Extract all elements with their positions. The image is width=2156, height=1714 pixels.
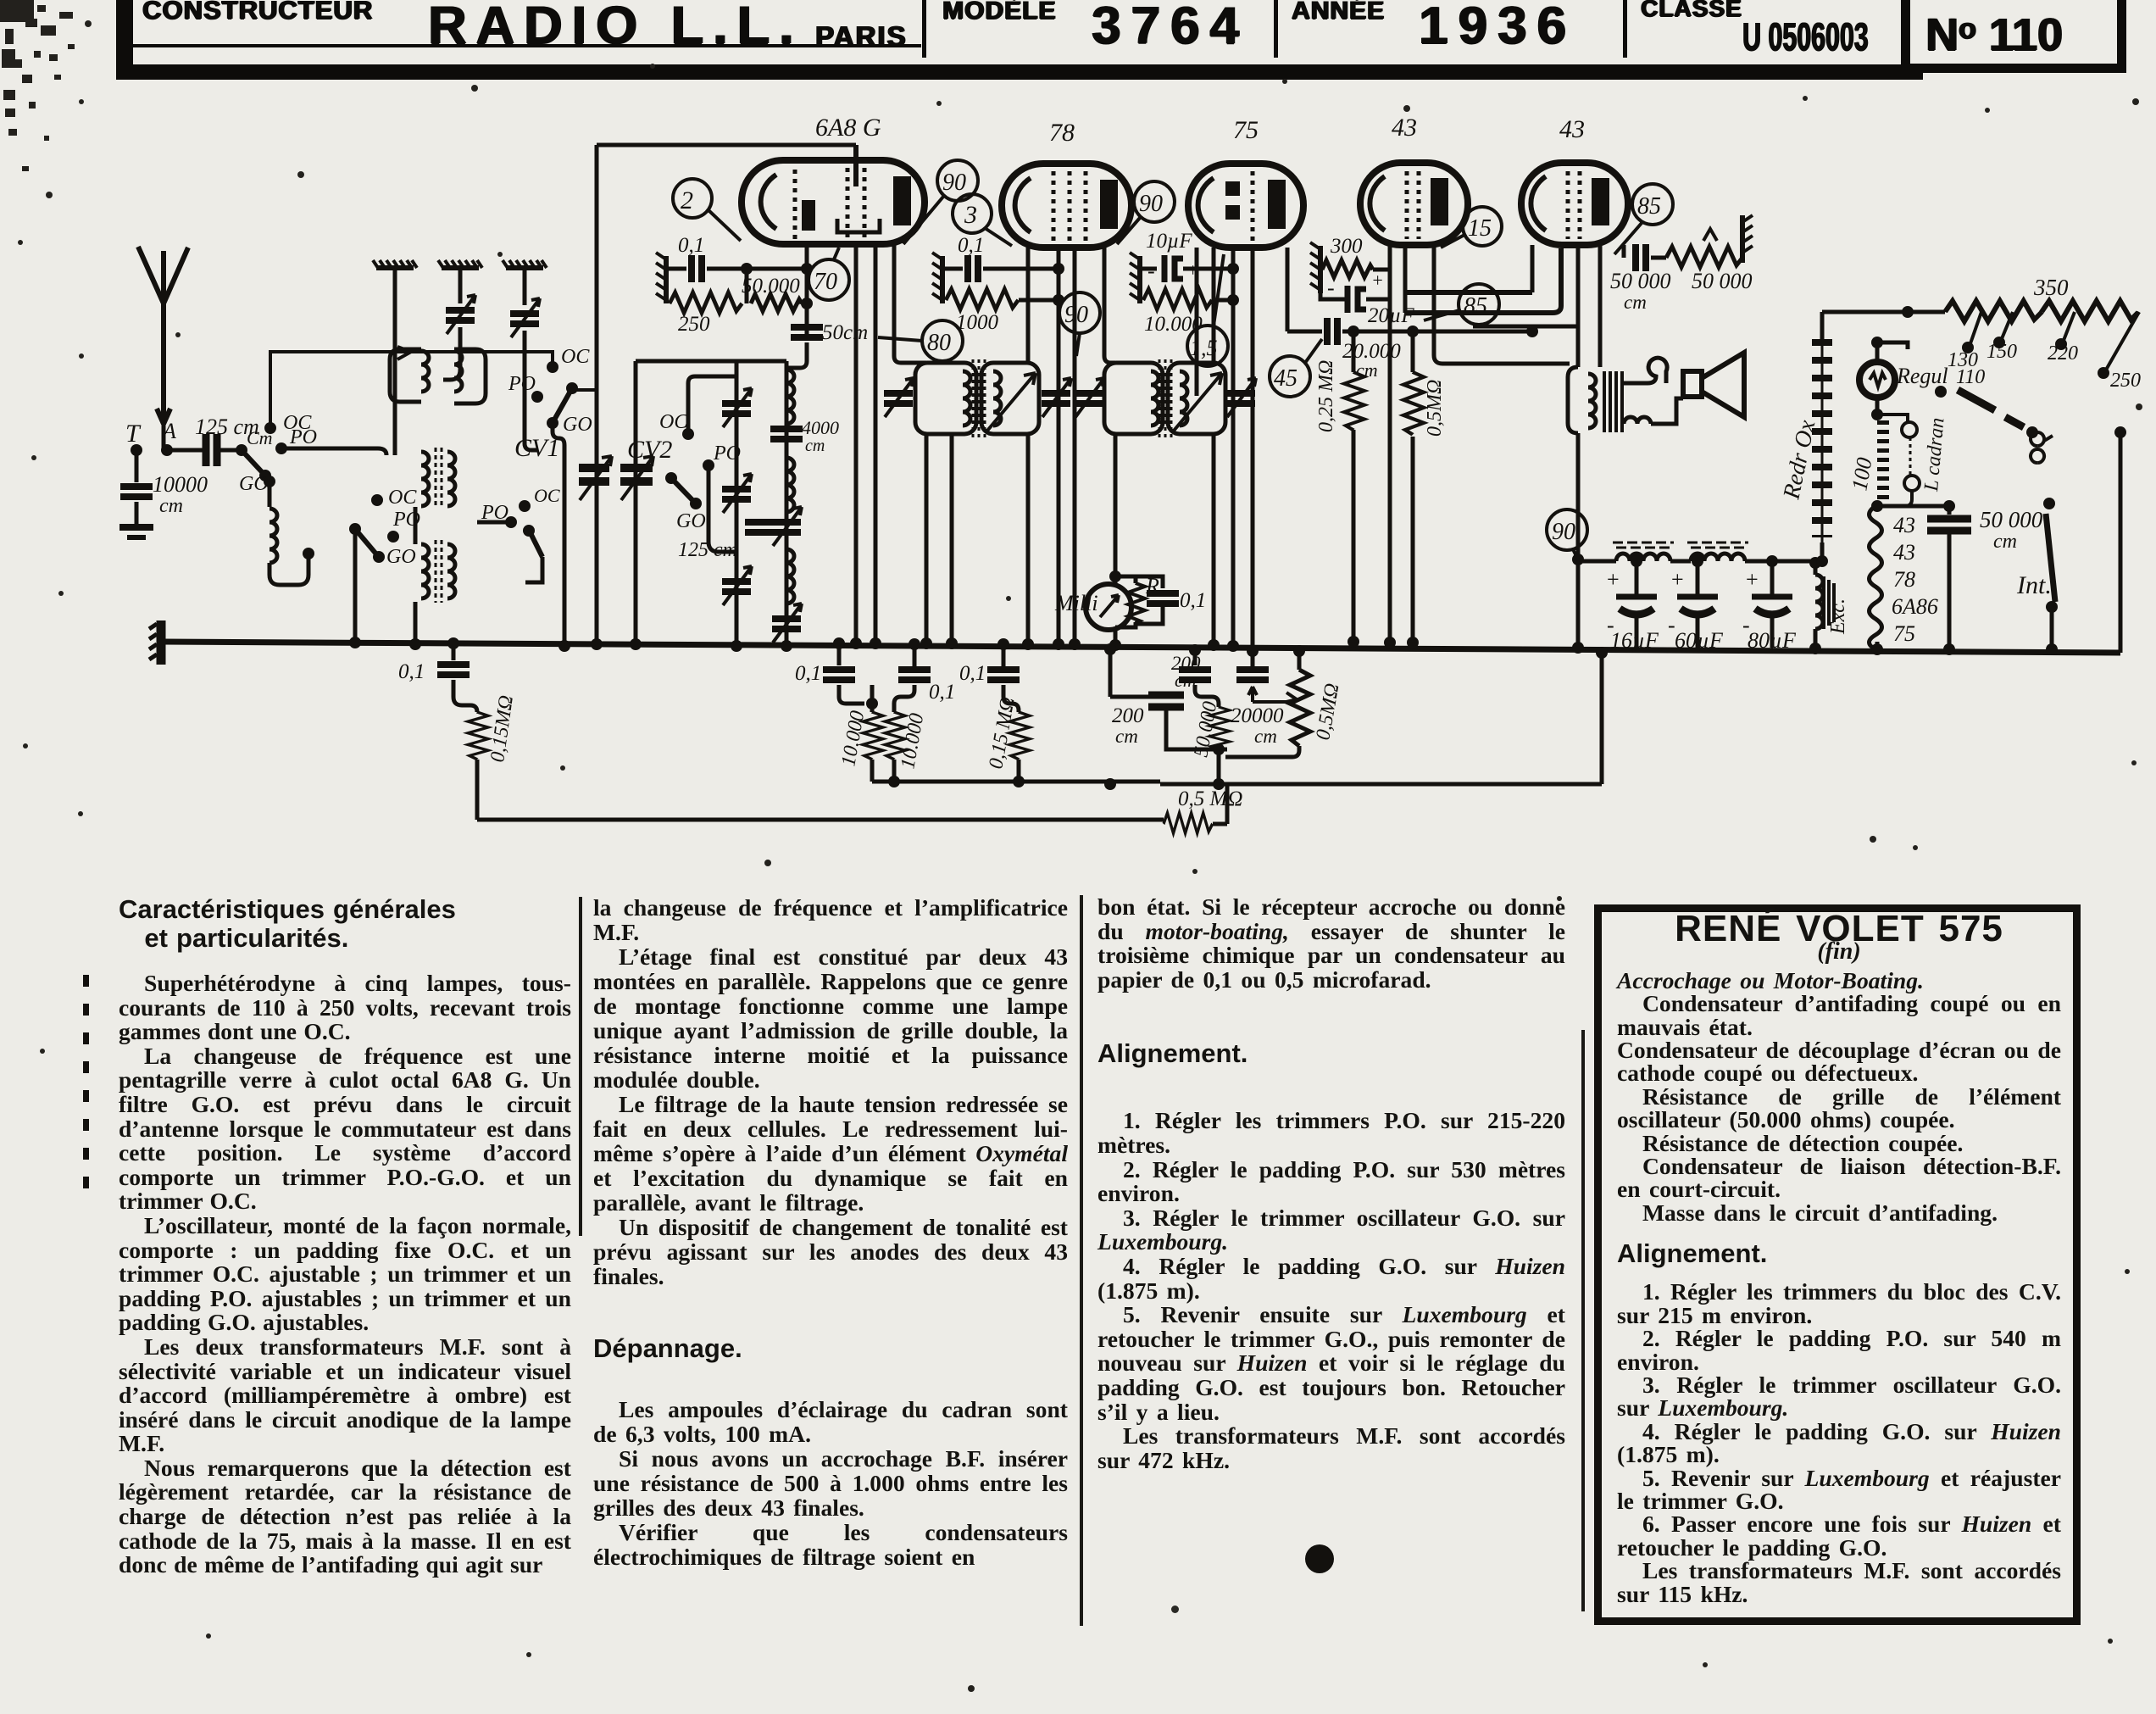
svg-text:+: + xyxy=(1671,567,1684,592)
U4 anode wire xyxy=(1434,225,1570,364)
contact OC xyxy=(264,422,276,434)
column 4 boxed xyxy=(1594,904,2081,1625)
circled 90 d xyxy=(1547,509,1587,559)
svg-text:0,5MΩ: 0,5MΩ xyxy=(1312,682,1343,742)
circled 45 xyxy=(1270,339,1322,397)
shield bar 2 xyxy=(438,260,482,268)
B+ top rail xyxy=(1822,310,1945,314)
svg-text:0,1: 0,1 xyxy=(958,234,984,257)
MF1 trimmer left xyxy=(884,378,914,417)
svg-text:0,1: 0,1 xyxy=(678,234,704,257)
selector taps xyxy=(1970,312,1981,346)
svg-text:0,5MΩ: 0,5MΩ xyxy=(1424,380,1446,437)
U4 cathode arc xyxy=(1370,176,1385,231)
svg-text:+: + xyxy=(1607,567,1620,592)
circled 90 b xyxy=(1117,181,1175,244)
svg-text:50 000: 50 000 xyxy=(1692,269,1753,293)
field coil Exc. xyxy=(1809,557,1821,569)
svg-text:90: 90 xyxy=(942,170,966,196)
junction xyxy=(741,263,753,275)
svg-text:10.000: 10.000 xyxy=(1144,313,1203,336)
contact PO xyxy=(387,531,399,543)
svg-text:+: + xyxy=(1746,567,1759,592)
osc coil L5 xyxy=(786,549,794,604)
wire anode to coupling cap xyxy=(1287,330,1322,334)
U1 anode xyxy=(893,176,911,225)
svg-text:90: 90 xyxy=(1139,191,1163,217)
svg-text:0,5 MΩ: 0,5 MΩ xyxy=(1178,787,1242,810)
ground hatch at pot xyxy=(1742,215,1753,263)
svg-text:10.000: 10.000 xyxy=(897,712,928,771)
U2 pin wires xyxy=(1057,248,1061,643)
capacitor 125 cm xyxy=(206,434,217,466)
padding capacitor 4000 cm xyxy=(770,429,803,439)
shield bar 3 xyxy=(503,260,547,268)
electrolytic C 80µF xyxy=(1766,555,1778,567)
svg-text:OC: OC xyxy=(659,411,688,433)
speaker xyxy=(1683,371,1702,397)
osc coil column wire xyxy=(785,361,789,646)
grid pin wire U1 xyxy=(805,244,809,341)
svg-text:1,5: 1,5 xyxy=(1190,336,1218,360)
filter choke 1 xyxy=(1599,559,1616,564)
variable capacitor CV2 xyxy=(620,468,653,481)
U4 pin wires xyxy=(1388,245,1392,643)
T2 secondary xyxy=(447,544,455,598)
svg-text:78: 78 xyxy=(1893,567,1915,592)
U3 anode to AF wire xyxy=(1286,248,1290,331)
arm xyxy=(530,531,542,557)
cap 0,1 c / resistor 0,15MΩ b xyxy=(997,638,1009,650)
svg-text:78: 78 xyxy=(1049,119,1075,147)
MF1 trimmer right xyxy=(1042,378,1071,417)
wire cap to grid pin xyxy=(707,267,807,271)
osc coil L4 xyxy=(786,458,794,512)
svg-text:OC: OC xyxy=(534,485,560,506)
resistor 10.000 a xyxy=(866,698,878,710)
electrolytic 10µF xyxy=(1164,255,1183,282)
RF transformer T2 primary xyxy=(421,544,429,598)
switch arm Cm xyxy=(242,450,264,475)
svg-text:80µF: 80µF xyxy=(1748,628,1797,653)
padder pair PO xyxy=(745,522,777,532)
svg-text:50.000: 50.000 xyxy=(742,275,800,298)
svg-text:GO: GO xyxy=(676,510,706,532)
resistor 0,25 MΩ xyxy=(1347,326,1359,337)
output transformer primary xyxy=(1568,367,1578,433)
svg-text:cm: cm xyxy=(1624,292,1647,313)
MF2 arrow xyxy=(1174,373,1222,431)
cap 200 cm b xyxy=(1189,644,1201,656)
svg-text:90: 90 xyxy=(1552,519,1575,545)
MF1 secondary coil xyxy=(993,371,1001,426)
meter loop xyxy=(1115,576,1136,645)
svg-text:250: 250 xyxy=(2110,370,2141,392)
svg-text:+: + xyxy=(1371,270,1384,291)
arm to GO xyxy=(572,388,598,392)
MF2 left bottom wire xyxy=(1114,434,1118,576)
svg-text:-: - xyxy=(1147,259,1155,283)
svg-text:cm: cm xyxy=(805,437,825,455)
circled 90 c xyxy=(1059,292,1100,356)
grid feed wire to 43s xyxy=(1531,330,1535,334)
margin dashes xyxy=(83,975,89,1204)
svg-text:90: 90 xyxy=(1064,302,1088,328)
svg-text:0,1: 0,1 xyxy=(1180,589,1206,612)
svg-text:300: 300 xyxy=(1330,235,1363,258)
svg-text:OC: OC xyxy=(561,346,590,368)
milliammeter M xyxy=(1086,584,1131,630)
link junction to resistors xyxy=(745,269,749,303)
B+ rail to rectifier xyxy=(1578,559,1599,564)
switch cluster 2: contact OC xyxy=(371,494,383,506)
node T xyxy=(131,444,142,456)
resistor 0,5 MΩ xyxy=(1407,326,1419,337)
resistor R shunt xyxy=(1128,583,1145,623)
capacitor 20.000 cm xyxy=(1327,318,1337,345)
svg-text:85: 85 xyxy=(1464,293,1487,320)
node A xyxy=(161,444,173,456)
column rule 1 xyxy=(579,897,582,1236)
wire hatch to cap xyxy=(666,267,686,271)
svg-text:4000: 4000 xyxy=(802,417,839,438)
MF1 primary coil xyxy=(963,371,970,426)
capacitor 0,1 xyxy=(968,255,978,282)
arm GO xyxy=(665,472,677,484)
svg-text:PO: PO xyxy=(713,442,741,465)
U1 anode wire to IF1 xyxy=(894,244,926,363)
svg-text:0,1: 0,1 xyxy=(929,681,955,704)
return line xyxy=(477,818,1164,822)
wire PO line to T1 xyxy=(281,448,386,455)
column 1 xyxy=(119,895,571,1578)
circled 80 xyxy=(878,320,963,361)
parallel grid tie wires xyxy=(1405,248,1561,313)
switch cluster 5: contact OC xyxy=(519,500,531,512)
column 3 xyxy=(1097,895,1565,1472)
right edge wire xyxy=(2119,432,2123,653)
MF1 core xyxy=(973,359,985,437)
svg-text:50cm: 50cm xyxy=(822,321,868,344)
ground hatch xyxy=(656,253,666,303)
svg-text:OC: OC xyxy=(388,487,417,509)
resistor 50.000 xyxy=(751,294,802,311)
U3 diode plate 1 xyxy=(1225,181,1240,196)
svg-text:2: 2 xyxy=(681,186,693,214)
U2 anode xyxy=(1100,180,1118,229)
MF1 arrow xyxy=(987,373,1036,431)
U2 grids dashed xyxy=(1052,171,1056,242)
svg-text:10000: 10000 xyxy=(153,472,208,497)
svg-text:220: 220 xyxy=(2048,342,2078,365)
wire antenna to A xyxy=(162,424,166,450)
U5 anode xyxy=(1592,178,1609,225)
capacitor 50cm xyxy=(791,327,823,337)
U3 diode plate 2 xyxy=(1225,205,1240,220)
contact GO xyxy=(264,476,275,487)
U5 grid dashed xyxy=(1566,171,1570,239)
resistor 0,5MΩ vert b xyxy=(1290,670,1310,746)
MF2 right bottom wire xyxy=(1212,434,1216,645)
resistor 10.000 xyxy=(1138,291,1142,300)
feed to screens (left along top) xyxy=(1820,310,1825,314)
svg-text:43: 43 xyxy=(1392,114,1417,142)
contact PO xyxy=(703,459,714,471)
circled 15 xyxy=(1441,207,1502,248)
transformer to B+ wire xyxy=(1576,365,1581,370)
cap 0,1 b / resistor 10.000 b xyxy=(909,638,920,650)
svg-text:GO: GO xyxy=(386,546,416,568)
switch Int. xyxy=(2043,498,2055,509)
sub-bus risers xyxy=(1600,653,1604,784)
MF1 left bottom wire xyxy=(925,434,929,643)
U1 grid bracket xyxy=(837,219,880,232)
mains selector resistor 350 xyxy=(1945,301,2042,321)
wire 50cm to osc coil xyxy=(786,342,807,368)
resistor 50.000 vert xyxy=(1209,707,1230,749)
svg-text:-: - xyxy=(1327,275,1335,300)
svg-text:Int.: Int. xyxy=(2016,571,2052,599)
svg-text:10.000: 10.000 xyxy=(837,710,869,769)
U5 screen wire xyxy=(1576,245,1581,367)
trimmer PO-GO 3 xyxy=(722,566,752,605)
ground stake left xyxy=(149,620,161,665)
svg-text:Milli: Milli xyxy=(1054,591,1098,615)
svg-text:20000: 20000 xyxy=(1231,704,1284,727)
U1 top grid cap wire xyxy=(853,145,859,186)
switch cluster 4: contact OC xyxy=(547,361,558,373)
svg-text:T: T xyxy=(125,420,142,448)
wire heater top to cap top xyxy=(1877,504,1949,509)
wire C1 to switch xyxy=(217,448,242,453)
resistor 1000 xyxy=(941,291,945,300)
potentiometer 50 000 xyxy=(1666,247,1742,267)
svg-text:60µF: 60µF xyxy=(1675,628,1724,653)
B+ screen wire xyxy=(1473,326,1578,367)
T2 core xyxy=(436,540,442,603)
left vertical from bus xyxy=(447,637,459,649)
rectifier Redr Ox xyxy=(1820,543,1825,561)
svg-text:cm: cm xyxy=(1254,726,1277,747)
svg-text:GO: GO xyxy=(563,414,592,436)
svg-text:75: 75 xyxy=(1233,116,1259,144)
dial lamps L cadran xyxy=(1877,415,1908,423)
output transformer core xyxy=(1604,371,1622,432)
header band xyxy=(116,0,1923,80)
AF takeoff 50 000 cm xyxy=(1622,245,1626,258)
svg-text:85: 85 xyxy=(1637,193,1661,220)
RF transformer T1 primary xyxy=(421,452,429,506)
svg-text:PO: PO xyxy=(508,373,536,395)
filter choke 2 xyxy=(1670,559,1691,564)
svg-text:130: 130 xyxy=(1948,349,1978,371)
svg-text:0,25 MΩ: 0,25 MΩ xyxy=(1315,360,1337,432)
transformer down wire xyxy=(1576,433,1581,644)
wire PO cluster5 left xyxy=(477,520,511,525)
svg-text:100: 100 xyxy=(1847,456,1876,492)
svg-text:350: 350 xyxy=(2033,275,2069,300)
contact PO xyxy=(531,391,543,403)
wire OC contact xyxy=(688,376,736,434)
circled 2 xyxy=(673,179,741,241)
T1 core xyxy=(436,448,442,507)
svg-text:43: 43 xyxy=(1893,513,1915,537)
U3 cathode arc xyxy=(1198,178,1214,232)
svg-text:PO: PO xyxy=(289,426,317,448)
capacitor 0,1 left xyxy=(437,665,470,675)
svg-text:75: 75 xyxy=(1893,621,1915,646)
shield bar 1 xyxy=(373,260,417,268)
wire 110 tap xyxy=(1934,375,1938,379)
ballast resistor 100 (dashed) xyxy=(1875,398,1880,415)
cluster4 GO wire to bus xyxy=(553,423,564,646)
wire PO contact down xyxy=(708,465,736,552)
switch Cm pivot xyxy=(236,444,247,456)
svg-text:200: 200 xyxy=(1112,704,1144,727)
U2 anode wire to MF2 xyxy=(1104,248,1115,363)
grid line vertical to CV1 xyxy=(595,145,599,644)
drop wire shield2 with trimmer xyxy=(458,268,463,303)
wire coil to osc xyxy=(269,556,308,585)
svg-text:PO: PO xyxy=(392,509,420,531)
jack symbol xyxy=(2031,432,2053,463)
cap 0,1 a xyxy=(833,637,845,649)
U1 grid dashed 3 xyxy=(863,168,867,241)
T1 secondary xyxy=(447,452,455,506)
svg-text:0,1: 0,1 xyxy=(959,662,986,685)
svg-text:125 cm: 125 cm xyxy=(678,539,737,561)
svg-text:45: 45 xyxy=(1274,365,1297,392)
T1-T2 link wire xyxy=(414,507,418,544)
svg-text:6A8 G: 6A8 G xyxy=(815,114,881,142)
svg-text:250: 250 xyxy=(678,313,710,336)
MF2 primary coil xyxy=(1151,371,1159,426)
switch cluster 3: contact OC xyxy=(682,428,694,440)
svg-text:15: 15 xyxy=(1468,215,1492,242)
svg-text:0,1: 0,1 xyxy=(398,660,425,683)
small speck xyxy=(1171,1605,1179,1613)
selector switch arm xyxy=(1958,390,1995,410)
trimmer OC xyxy=(772,604,802,643)
osc frame top rail xyxy=(636,359,786,364)
trimmer PO-GO 1 xyxy=(722,388,752,427)
pivot GO arm xyxy=(349,523,361,535)
svg-text:1000: 1000 xyxy=(956,311,999,334)
coil GO filter xyxy=(268,481,272,507)
svg-text:Redr Ox: Redr Ox xyxy=(1778,417,1820,502)
U1 grid dashed 2 xyxy=(846,168,850,241)
pivot to bus wire xyxy=(353,529,358,643)
circled 90 a xyxy=(903,160,978,244)
MF2 trimmer left xyxy=(1075,378,1104,417)
resistor 0,15 MΩ left xyxy=(468,712,488,760)
svg-text:3: 3 xyxy=(964,201,977,229)
cap 200 cm a xyxy=(1148,695,1184,707)
electrolytic 20µF xyxy=(1347,286,1366,313)
capacitor 0,1 at meter xyxy=(1136,605,1163,624)
U3 grid dashed xyxy=(1251,171,1255,242)
svg-text:43: 43 xyxy=(1893,540,1915,565)
U1 anode G2 rod xyxy=(802,200,815,231)
circled 85 b xyxy=(1424,284,1499,325)
svg-text:GO: GO xyxy=(239,473,269,495)
ground bus xyxy=(161,642,2120,653)
drop wire shield1 xyxy=(393,268,397,455)
svg-text:150: 150 xyxy=(1987,341,2017,363)
sub-bus xyxy=(872,780,1160,784)
svg-text:43: 43 xyxy=(1559,115,1585,143)
svg-text:cm: cm xyxy=(1993,531,2017,553)
column rule 3 xyxy=(1581,1030,1585,1611)
osc coil L3 xyxy=(786,370,794,424)
svg-text:50 000: 50 000 xyxy=(1610,269,1671,293)
MF2 trimmer right xyxy=(1226,378,1256,417)
big printed dot xyxy=(1305,1544,1334,1573)
T2 to bus wire xyxy=(414,602,418,643)
circled 85 a xyxy=(1614,184,1673,254)
cap 20000 cm (padder with arrow) xyxy=(1247,645,1259,657)
resistor 300 xyxy=(1322,260,1373,277)
circled 1,5 xyxy=(1187,254,1228,366)
svg-text:80: 80 xyxy=(927,330,951,356)
U1 pin wires to bus xyxy=(854,244,859,643)
electrolytic C 60µF xyxy=(1692,555,1703,567)
resistor 250 xyxy=(664,291,669,303)
wire A to C1 xyxy=(167,448,203,453)
circled 70 xyxy=(808,248,849,300)
capacitor 50 000 cm (mains) xyxy=(1948,506,1952,515)
variable capacitor CV1 xyxy=(579,468,609,481)
MF2 right top wire to U3 xyxy=(1212,248,1216,363)
input section coil A xyxy=(390,349,421,402)
svg-text:cm: cm xyxy=(1115,726,1138,747)
contact PO xyxy=(505,516,517,528)
antenna xyxy=(138,247,188,424)
circled 3 xyxy=(953,194,1012,246)
svg-text:L cadran: L cadran xyxy=(1920,417,1949,493)
grid top rail xyxy=(597,143,856,147)
U2 cathode arc xyxy=(1015,178,1031,232)
speaker voice coil link xyxy=(1624,358,1683,424)
lamp Regul xyxy=(1877,342,1908,363)
svg-text:50 000: 50 000 xyxy=(1980,507,2043,532)
svg-text:0,15MΩ: 0,15MΩ xyxy=(486,694,518,764)
MF1 trimmer return wire xyxy=(950,434,954,643)
U5 cathode arc xyxy=(1531,176,1546,231)
wire OC contact up and right xyxy=(270,352,553,428)
detection filter: vertical from meter xyxy=(1104,643,1116,655)
U4 anode xyxy=(1431,178,1448,225)
contact PO xyxy=(275,442,287,454)
column 2 xyxy=(593,895,1068,1569)
U1 cathode arc xyxy=(761,175,776,229)
U5 anode wire to transformer xyxy=(1598,245,1603,367)
svg-text:0,1: 0,1 xyxy=(795,662,821,685)
capacitor 10.000 cm on T lead xyxy=(135,450,139,482)
svg-text:6A86: 6A86 xyxy=(1892,594,1938,619)
svg-text:Exc.: Exc. xyxy=(1827,598,1849,635)
electrolytic C 16µF xyxy=(1631,555,1642,567)
ground under T cap xyxy=(119,527,153,537)
input section coil B xyxy=(454,349,486,403)
U4 grid dashed xyxy=(1405,171,1409,239)
trimmer PO-GO 2 xyxy=(722,474,752,513)
svg-text:Regul: Regul xyxy=(1896,364,1948,388)
U3 pin wires xyxy=(1195,248,1199,396)
drop wire shield3 with trimmer xyxy=(523,268,527,305)
svg-text:cm: cm xyxy=(159,495,183,517)
U3 anode xyxy=(1268,180,1286,229)
